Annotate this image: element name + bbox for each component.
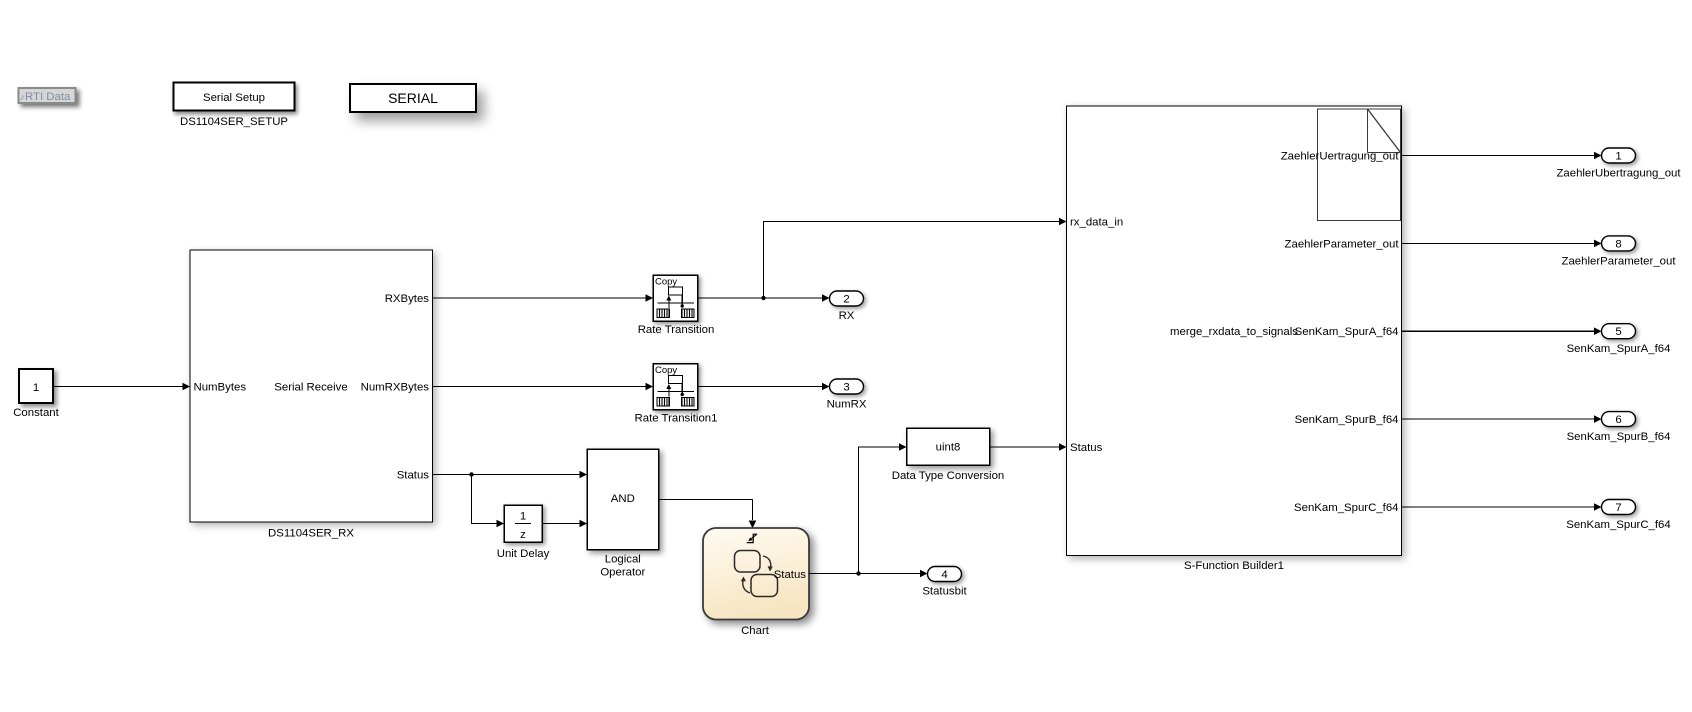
block Chart [703,528,809,620]
wire NumRXBytes to Rate Transition1 [433,383,654,391]
svg-text:SenKam_SpurC_f64: SenKam_SpurC_f64 [1294,502,1398,514]
wire Rate Transition1 to port NumRX [698,383,830,391]
wire Status to AND with junction [433,471,588,479]
block SERIAL [350,84,476,112]
svg-text:DS1104SER_RX: DS1104SER_RX [268,528,354,540]
block Unit Delay [504,505,542,542]
wire uint8 to Status input [990,443,1067,451]
svg-text:7: 7 [1615,502,1621,514]
svg-text:Copy: Copy [655,277,677,288]
svg-text:z: z [520,529,526,541]
svg-text:SenKam_SpurB_f64: SenKam_SpurB_f64 [1295,414,1399,426]
svg-text:Data Type Conversion: Data Type Conversion [892,470,1005,482]
svg-text:ZaehlerParameter_out: ZaehlerParameter_out [1562,255,1677,267]
svg-text:ZaehlerParameter_out: ZaehlerParameter_out [1285,238,1400,250]
wire Rate Transition to port RX with junction [698,294,830,302]
svg-text:6: 6 [1615,414,1621,426]
svg-text:Operator: Operator [600,567,645,579]
svg-text:1: 1 [33,382,39,394]
trigger icon [747,534,757,542]
svg-text:Status: Status [397,470,430,482]
svg-text:Unit Delay: Unit Delay [497,548,550,560]
svg-text:rx_data_in: rx_data_in [1070,217,1123,229]
svg-text:Statusbit: Statusbit [922,586,967,598]
block DS1104SER_RX [190,250,433,522]
block S-Function Builder1 [1067,106,1402,556]
svg-text:ZaehlerUbertragung_out: ZaehlerUbertragung_out [1556,168,1681,180]
svg-text:♪: ♪ [20,92,25,103]
block Data Type Conversion [907,428,990,465]
svg-text:uint8: uint8 [936,442,961,454]
svg-text:Constant: Constant [13,407,59,419]
svg-text:S-Function Builder1: S-Function Builder1 [1184,560,1284,572]
svg-text:NumRX: NumRX [827,399,867,411]
port 4 Statusbit [928,567,962,582]
port 2 RX [830,291,864,306]
svg-text:SenKam_SpurA_f64: SenKam_SpurA_f64 [1295,326,1399,338]
RTI Data tag [19,88,76,103]
wire Unit Delay to AND [542,520,587,528]
svg-text:Rate Transition: Rate Transition [638,324,715,336]
svg-text:SenKam_SpurC_f64: SenKam_SpurC_f64 [1566,519,1670,531]
svg-text:5: 5 [1615,326,1621,338]
block Serial Setup (DS1104SER_SETUP) [174,83,295,111]
svg-text:4: 4 [941,569,947,581]
svg-text:RXBytes: RXBytes [385,293,430,305]
svg-text:Rate Transition1: Rate Transition1 [635,413,718,425]
svg-text:Status: Status [1070,442,1103,454]
svg-text:1: 1 [520,511,526,523]
wire Constant to NumBytes [53,383,190,391]
svg-text:ZaehlerUertragung_out: ZaehlerUertragung_out [1281,151,1400,163]
doc icon with folded corner [1318,109,1401,221]
wire AND to Chart trigger [659,500,757,529]
block Rate Transition [653,275,698,321]
svg-text:Serial Setup: Serial Setup [203,92,265,104]
wire Chart to port Statusbit with junction [809,570,928,578]
svg-text:AND: AND [611,493,635,505]
port 6 SenKam_SpurB_f64 [1602,412,1636,427]
svg-text:SenKam_SpurB_f64: SenKam_SpurB_f64 [1567,431,1671,443]
svg-text:merge_rxdata_to_signals: merge_rxdata_to_signals [1170,326,1298,338]
state 1 [735,551,761,573]
svg-text:RTI Data: RTI Data [25,91,71,103]
port 1 ZaehlerUbertragung_out [1602,148,1636,163]
svg-text:SERIAL: SERIAL [388,90,438,106]
block Logical Operator AND [587,449,659,550]
svg-text:8: 8 [1615,238,1621,250]
wire RXBytes to Rate Transition [433,294,654,302]
block Rate Transition1 [653,364,698,410]
svg-text:DS1104SER_SETUP: DS1104SER_SETUP [180,116,288,128]
svg-text:NumRXBytes: NumRXBytes [361,382,430,394]
svg-text:3: 3 [843,382,849,394]
block Constant [19,369,53,403]
svg-text:2: 2 [843,294,849,306]
wire out5 [1402,327,1602,335]
svg-text:Copy: Copy [655,365,677,376]
svg-text:1: 1 [1615,151,1621,163]
wire junction up to Data Type Conversion [859,443,907,573]
svg-text:RX: RX [839,310,855,322]
port 7 SenKam_SpurC_f64 [1602,500,1636,515]
wire out6 [1402,415,1602,423]
wire out7 [1402,503,1602,511]
transition arrows [763,556,771,568]
svg-text:Serial Receive: Serial Receive [274,382,347,394]
wire junction down to Unit Delay [472,475,505,528]
wire out8 [1402,240,1602,248]
svg-text:SenKam_SpurA_f64: SenKam_SpurA_f64 [1567,343,1671,355]
svg-text:Status: Status [774,569,807,581]
svg-text:Logical: Logical [605,554,641,566]
port 5 SenKam_SpurA_f64 [1602,324,1636,339]
wire junction up to rx_data_in [764,218,1067,298]
svg-text:Chart: Chart [741,625,770,637]
port 3 NumRX [830,379,864,394]
wire out1 [1402,152,1602,160]
port 8 ZaehlerParameter_out [1602,236,1636,251]
state 2 [751,575,778,597]
svg-text:NumBytes: NumBytes [194,382,247,394]
